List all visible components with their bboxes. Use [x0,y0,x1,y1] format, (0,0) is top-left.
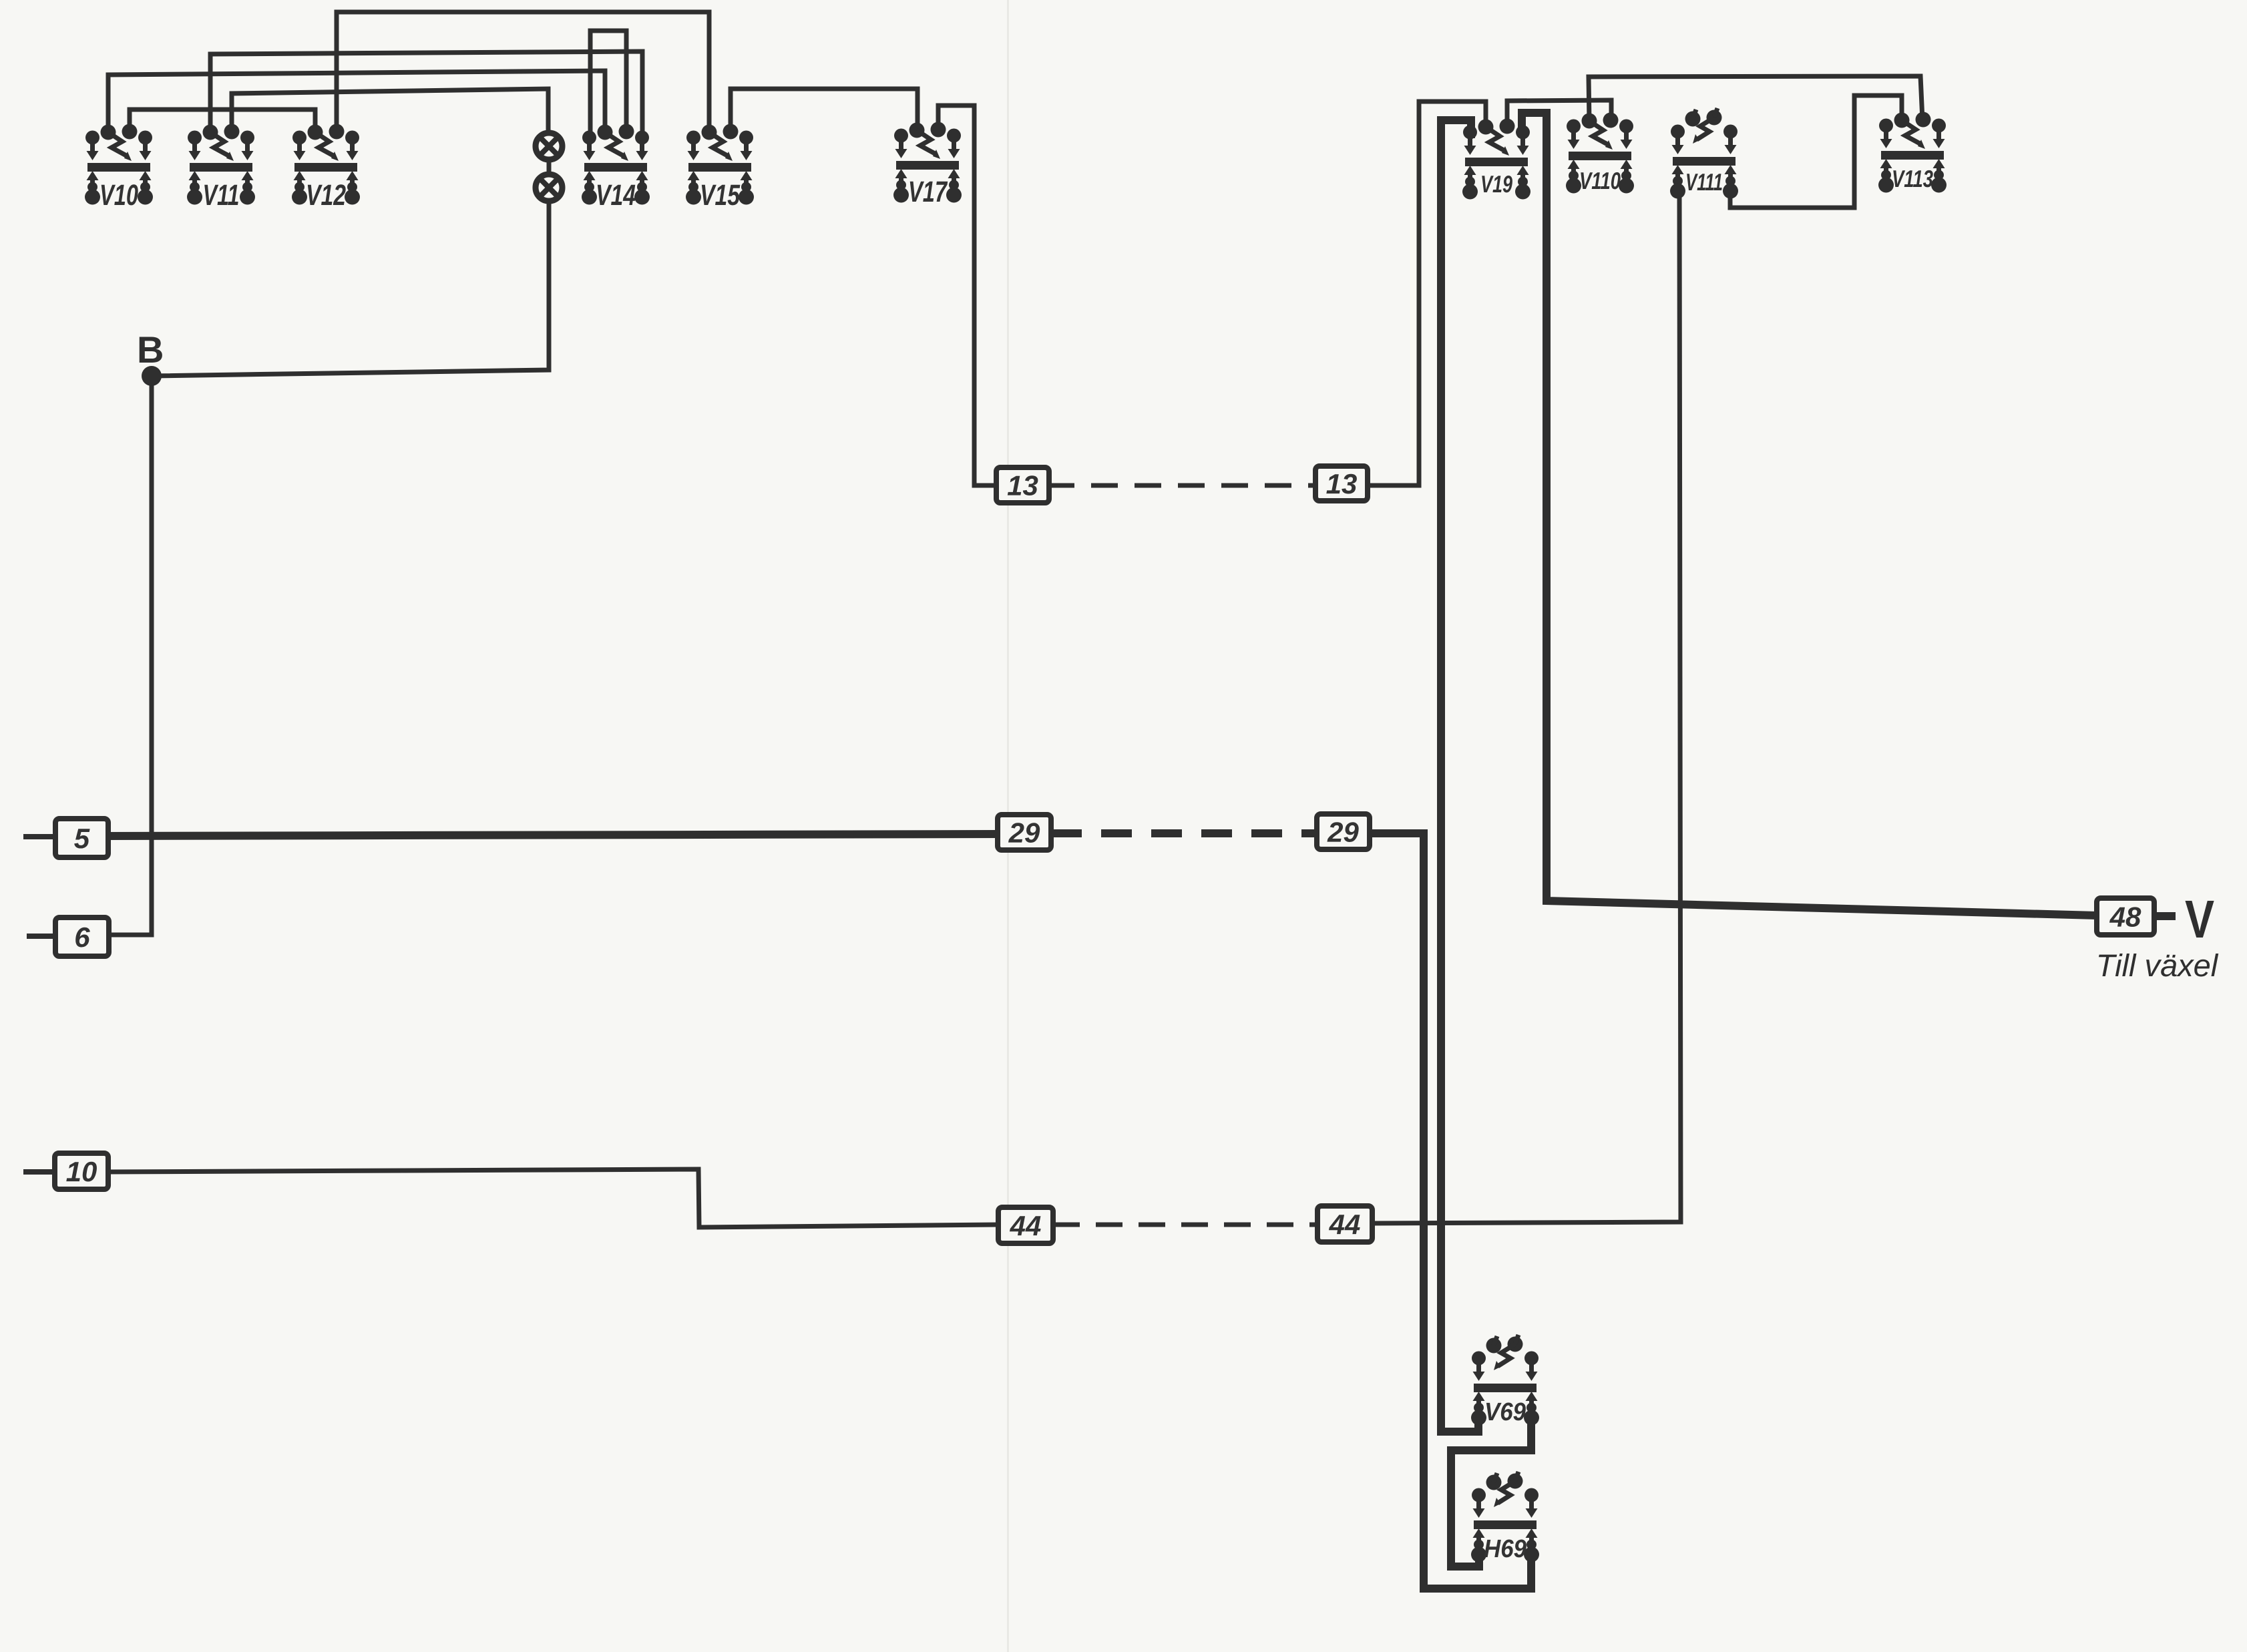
svg-text:V69: V69 [1484,1398,1526,1426]
wire lamps to node B [152,200,549,376]
switch V19 [1462,119,1530,200]
wire terminal 13 right to V19 left armature [1368,101,1486,485]
terminal 44 right [1317,1206,1372,1242]
wire V19 right armature to V110 right armature [1507,100,1611,127]
svg-text:48: 48 [2109,901,2141,933]
switch V17 [893,122,962,209]
terminal 48 [2097,898,2154,935]
svg-text:V111: V111 [1685,168,1723,196]
switch V10 [85,124,153,212]
wire terminal 10 to terminal 44 left [107,1169,998,1227]
terminal 6 [55,917,109,956]
signal lamp L2 [536,174,562,201]
page fold seam [1007,0,1009,1652]
svg-text:V10: V10 [99,179,138,212]
wire terminal 29 right down to H69 [1370,833,1531,1589]
svg-text:Till växel: Till växel [2096,948,2219,983]
svg-text:44: 44 [1010,1210,1042,1241]
terminal 29 right [1317,814,1370,849]
wire stub terminal 6 [27,934,55,939]
svg-text:29: 29 [1327,817,1359,848]
wire node B down to terminal 6 [109,376,152,935]
wire stub terminal 10 [23,1169,55,1175]
wire V17 right armature to terminal 13 left [938,106,998,485]
svg-text:6: 6 [74,921,90,953]
wire V10 right armature to V12 left armature [130,110,315,132]
wire trunk 5 to terminal 29 left [106,834,998,836]
svg-text:V11: V11 [202,179,239,212]
svg-text:V12: V12 [306,179,346,212]
terminal 29 left [998,815,1051,850]
svg-text:V17: V17 [908,176,948,208]
wire V10 left armature to V14 left armature [108,71,605,132]
wire dashed link 13 [1048,483,1315,488]
wire V14 left contact to V14 right armature [590,31,626,138]
terminal 5 [55,819,108,857]
wire V12 right armature to V15 left armature [337,12,709,132]
switch V111 [1670,108,1738,199]
svg-text:29: 29 [1008,817,1040,849]
signal lamp L1 [536,133,562,160]
wire V15 right armature to V17 left armature [731,89,917,132]
terminal 13 right [1315,466,1368,501]
wire stub terminal 5 [23,834,55,839]
wire V11 left armature to V14 right contact [210,51,642,138]
svg-text:V19: V19 [1480,170,1512,198]
switch V69 [1471,1335,1539,1426]
wire V19 left contact loop [1441,120,1478,1432]
wire V19 right contact to terminal 48 [1522,113,2097,915]
wire V69 to H69 link [1451,1420,1531,1567]
switch V14 [582,124,650,212]
svg-text:V113: V113 [1892,165,1933,192]
switch V12 [292,124,360,212]
terminal 13 left [996,467,1049,503]
svg-text:V15: V15 [700,179,740,212]
switch V11 [187,124,255,212]
svg-text:44: 44 [1329,1209,1361,1240]
terminal 10 [55,1153,108,1189]
node B [137,329,164,386]
wire stub terminal 48 to V [2154,912,2176,920]
svg-text:5: 5 [74,823,90,854]
svg-text:H69: H69 [1484,1535,1526,1563]
wire terminal 44 right to V111 bottom left [1372,192,1681,1223]
wire dashed link 29 [1051,829,1317,837]
switch H69 [1471,1472,1539,1563]
svg-text:B: B [137,329,164,371]
wire lamp to lamp link [547,159,552,175]
terminal 44 left [998,1207,1053,1243]
wire dashed link 44 [1053,1223,1317,1227]
switch V113 [1878,112,1947,193]
svg-text:V110: V110 [1579,167,1621,194]
svg-text:V14: V14 [596,179,636,212]
svg-text:V: V [2185,889,2214,949]
wire V111 bottom right to V113 left armature [1730,95,1902,208]
switch V110 [1566,113,1634,195]
svg-text:13: 13 [1326,468,1358,499]
svg-text:10: 10 [66,1156,97,1187]
svg-text:13: 13 [1007,470,1038,501]
wire V110 left armature to V113 right armature [1589,76,1922,121]
switch V15 [686,124,754,212]
wire V11 right armature to signal lamps [232,89,548,134]
